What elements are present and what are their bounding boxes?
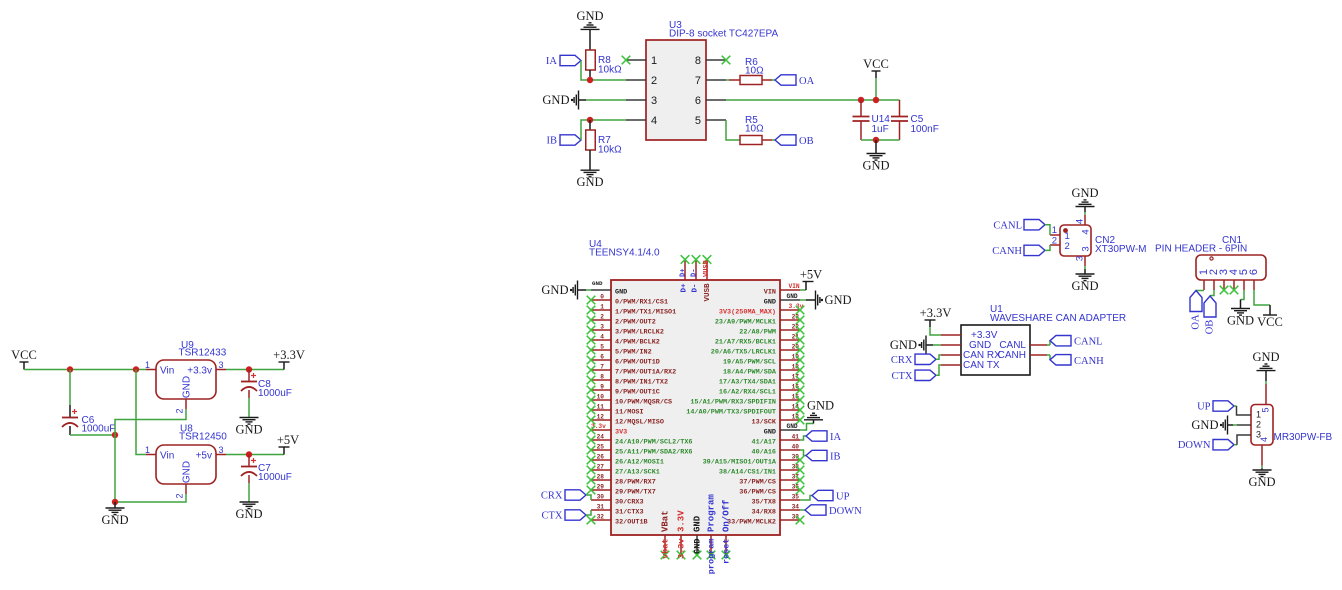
- svg-text:vbat: vbat: [661, 539, 671, 559]
- U4 right pin 3V3(250MA_MAX) row 310: [719, 303, 804, 316]
- junction C6 bottom: [112, 432, 118, 438]
- U4 right pin 23/A9/PWM/MCLK1 row 320: [715, 314, 804, 327]
- svg-text:6: 6: [600, 354, 604, 361]
- svg-text:3: 3: [1075, 256, 1086, 261]
- U9 pin 3: [216, 360, 226, 370]
- U1 pin CANL: [1030, 344, 1047, 346]
- svg-text:CTX: CTX: [542, 511, 563, 522]
- svg-text:0: 0: [600, 294, 604, 301]
- U8 pin 1: [145, 445, 156, 455]
- svg-text:11: 11: [597, 404, 605, 411]
- svg-text:5: 5: [600, 344, 604, 351]
- svg-text:4: 4: [1259, 437, 1269, 442]
- svg-text:18: 18: [792, 364, 800, 371]
- junction U8 feed: [133, 366, 139, 372]
- svg-text:CANH: CANH: [992, 246, 1022, 257]
- resistor R6: [726, 57, 775, 85]
- svg-text:36: 36: [792, 484, 800, 491]
- ground GND (above R8): [576, 9, 603, 30]
- svg-text:12: 12: [597, 414, 605, 421]
- svg-text:DOWN: DOWN: [1178, 440, 1211, 451]
- svg-text:1: 1: [600, 304, 604, 311]
- svg-text:10Ω: 10Ω: [745, 124, 764, 135]
- svg-text:31/CTX3: 31/CTX3: [615, 508, 644, 516]
- U4 right pin 18/A4/PWM/SDA row 370: [723, 364, 804, 377]
- CN1 pin 5: [1238, 269, 1250, 290]
- MR30 pin 3 wire: [1234, 435, 1251, 445]
- svg-text:28/PWM/RX7: 28/PWM/RX7: [615, 478, 656, 486]
- svg-text:3: 3: [218, 445, 223, 455]
- svg-text:23: 23: [792, 314, 800, 321]
- label CRX: [541, 490, 586, 502]
- svg-text:19: 19: [792, 354, 800, 361]
- svg-text:8/PWM/IN1/TX2: 8/PWM/IN1/TX2: [615, 378, 668, 386]
- svg-text:On/Off: On/Off: [722, 500, 732, 532]
- U4 right pin 21/A7/RX5/BCLK1 row 340: [715, 334, 804, 347]
- U4 right pin GND row 430: [764, 428, 800, 436]
- junction ground rail: [112, 499, 118, 505]
- svg-text:15/A1/PWM/RX3/SPDIFIN: 15/A1/PWM/RX3/SPDIFIN: [690, 398, 776, 406]
- wire U9 pin2 to ground rail: [115, 409, 186, 502]
- U4 left pin 24/A10/PWM/SCL2/TX6: [587, 434, 693, 447]
- svg-text:25: 25: [597, 444, 605, 451]
- svg-text:10kΩ: 10kΩ: [598, 65, 622, 76]
- CN1 pin 3: [1218, 269, 1230, 290]
- svg-text:3.3v: 3.3v: [677, 539, 687, 559]
- svg-text:MR30PW-FB: MR30PW-FB: [1274, 432, 1333, 443]
- ground GND (left of pin 3): [542, 91, 578, 110]
- svg-text:31: 31: [597, 504, 605, 511]
- svg-text:2: 2: [175, 408, 185, 413]
- svg-text:VBat: VBat: [661, 510, 671, 532]
- wire GND to pin 3: [579, 99, 627, 101]
- svg-text:2: 2: [1052, 236, 1057, 247]
- wire CRX to pin 30: [586, 495, 591, 500]
- svg-text:10Ω: 10Ω: [745, 66, 764, 77]
- svg-text:CAN TX: CAN TX: [963, 360, 1000, 371]
- ground GND (U4 right, VIN side): [787, 291, 852, 310]
- wire C6 bottom: [70, 434, 115, 436]
- svg-text:16/A2/RX4/SCL1: 16/A2/RX4/SCL1: [719, 388, 776, 396]
- svg-text:41: 41: [792, 434, 800, 441]
- U4 left pin 3/PWM/LRCLK2: [587, 324, 664, 337]
- svg-text:GND: GND: [576, 9, 603, 23]
- svg-text:37: 37: [792, 474, 800, 481]
- svg-text:CANL: CANL: [993, 221, 1022, 232]
- svg-text:DOWN: DOWN: [829, 506, 862, 517]
- svg-text:3/PWM/LRCLK2: 3/PWM/LRCLK2: [615, 328, 664, 336]
- microcontroller U4 TEENSY4.1/4.0: [589, 239, 780, 535]
- svg-text:1000uF: 1000uF: [82, 424, 116, 435]
- svg-text:19/A5/PWM/SCL: 19/A5/PWM/SCL: [723, 358, 776, 366]
- connector CN2 XT30PW-M: [1060, 225, 1147, 256]
- svg-text:GND: GND: [787, 293, 798, 300]
- label IA: [546, 55, 581, 67]
- svg-text:1: 1: [145, 360, 150, 370]
- svg-text:VIN: VIN: [789, 283, 800, 290]
- svg-text:GND: GND: [764, 428, 776, 436]
- pin 8: [695, 55, 730, 67]
- svg-text:WAVESHARE CAN ADAPTER: WAVESHARE CAN ADAPTER: [990, 313, 1126, 324]
- svg-text:0/PWM/RX1/CS1: 0/PWM/RX1/CS1: [615, 298, 668, 306]
- svg-text:13: 13: [792, 414, 800, 421]
- pin 1: [622, 55, 657, 67]
- svg-text:1/PWM/TX1/MISO1: 1/PWM/TX1/MISO1: [615, 308, 676, 316]
- svg-text:VCC: VCC: [863, 57, 889, 71]
- junction C6 top: [67, 366, 73, 372]
- resistor R7: [586, 120, 622, 156]
- U4 left pin 4/PWM/BCLK2: [587, 334, 660, 347]
- label OA (CN1): [1190, 291, 1204, 330]
- capacitor C5 100nF: [891, 100, 939, 140]
- label DOWN (MR30): [1178, 440, 1234, 452]
- svg-text:24: 24: [597, 434, 605, 441]
- svg-text:1: 1: [145, 445, 150, 455]
- U4 right pin 14/A0/PWM/TX3/SPDIFOUT row 410: [686, 404, 804, 417]
- wire R8 top to GND: [589, 29, 591, 50]
- svg-text:VCC: VCC: [1257, 315, 1283, 329]
- svg-text:VCC: VCC: [11, 348, 37, 362]
- U4 right pin 16/A2/RX4/SCL1 row 390: [719, 384, 804, 397]
- CN1 pin 1: [1198, 269, 1210, 290]
- svg-text:GND: GND: [576, 175, 603, 189]
- U4 right pin 38/A14/CS1/IN1 row 470: [719, 464, 804, 477]
- U4 bottom pin On/Off: [722, 500, 732, 564]
- U4 left pin 30/CRX3: [591, 494, 644, 507]
- MR30 pin 5 (top): [1265, 384, 1267, 405]
- U1 pin CAN RX: [941, 354, 961, 356]
- U4 left pin 9/PWM/OUT1C: [587, 384, 660, 397]
- svg-text:TSR12433: TSR12433: [179, 348, 227, 359]
- pin 3: [626, 95, 657, 107]
- label OB (CN1): [1204, 290, 1216, 334]
- svg-text:10/PWM/MQSR/CS: 10/PWM/MQSR/CS: [615, 398, 672, 406]
- svg-text:OB: OB: [1205, 320, 1216, 335]
- svg-text:UP: UP: [836, 492, 850, 503]
- svg-text:17/A3/TX4/SDA1: 17/A3/TX4/SDA1: [719, 378, 776, 386]
- svg-text:37/PWM/CS: 37/PWM/CS: [739, 478, 776, 486]
- power VCC (CN1): [1254, 290, 1283, 329]
- capacitor C7 1000uF: [241, 455, 292, 503]
- svg-text:22: 22: [792, 324, 800, 331]
- U4 right pin 41/A17 row 440: [752, 434, 800, 447]
- svg-text:8: 8: [600, 374, 604, 381]
- svg-text:GND: GND: [235, 423, 262, 437]
- svg-text:33: 33: [792, 514, 800, 521]
- op-amp U3 DIP-8 socket TC427EPA: [646, 20, 778, 140]
- svg-text:Program: Program: [707, 494, 717, 532]
- svg-text:Vin: Vin: [160, 366, 174, 377]
- svg-text:1: 1: [651, 55, 657, 67]
- svg-text:IB: IB: [547, 136, 558, 147]
- svg-text:GND: GND: [182, 376, 193, 398]
- pin 7: [695, 75, 726, 87]
- wire CRX to CAN RX: [936, 355, 941, 359]
- svg-text:GND: GND: [787, 423, 798, 430]
- ground GND (U4 right, row 430): [787, 399, 835, 431]
- svg-text:GND: GND: [1071, 279, 1098, 293]
- wire U9 out: [226, 369, 284, 371]
- junction caps bottom: [873, 137, 879, 143]
- svg-text:33/PWM/MCLK2: 33/PWM/MCLK2: [727, 518, 776, 526]
- ground GND (MR30 pin 2): [1191, 416, 1251, 435]
- svg-text:16: 16: [792, 384, 800, 391]
- svg-text:8: 8: [695, 55, 701, 67]
- svg-text:PIN HEADER - 6PIN: PIN HEADER - 6PIN: [1155, 244, 1247, 255]
- svg-text:3: 3: [218, 360, 223, 370]
- label DOWN (U4): [800, 505, 862, 517]
- svg-text:6: 6: [695, 95, 701, 107]
- svg-text:+3.3v: +3.3v: [187, 366, 212, 377]
- svg-text:4/PWM/BCLK2: 4/PWM/BCLK2: [615, 338, 660, 346]
- svg-text:GND: GND: [1191, 418, 1218, 432]
- svg-text:GND: GND: [764, 298, 776, 306]
- label CTX: [542, 510, 587, 522]
- ground GND (below R7): [576, 150, 603, 189]
- ground GND (below C8): [235, 418, 262, 437]
- node VIN / power +5V: [789, 267, 823, 290]
- svg-text:2: 2: [1065, 241, 1070, 252]
- U4 right pin 33/PWM/MCLK2 row 520: [727, 514, 804, 527]
- ground GND (below C7): [235, 502, 262, 521]
- U4 top pin D-: [691, 255, 701, 292]
- U4 right pin 20/A6/TX5/LRCLK1 row 350: [711, 344, 805, 357]
- svg-text:26: 26: [597, 454, 605, 461]
- capacitor U14 1uF: [853, 100, 891, 140]
- label CANH (U1): [1047, 355, 1104, 367]
- svg-text:4: 4: [651, 115, 657, 127]
- svg-text:30: 30: [597, 494, 605, 501]
- U4 left pin 11/MOSI: [587, 404, 644, 417]
- svg-text:29: 29: [597, 484, 605, 491]
- U4 right pin 19/A5/PWM/SCL row 360: [723, 354, 804, 367]
- U4 left pin 7/PWM/OUT1A/RX2: [587, 364, 676, 377]
- svg-text:GND: GND: [615, 288, 627, 296]
- svg-text:GND: GND: [1071, 186, 1098, 200]
- svg-text:5: 5: [695, 115, 701, 127]
- wire R8 bottom: [589, 70, 591, 80]
- U4 left pin 1/PWM/TX1/MISO1: [587, 304, 676, 317]
- svg-text:18/A4/PWM/SDA: 18/A4/PWM/SDA: [723, 368, 777, 376]
- resistor R8: [586, 50, 622, 76]
- U4 left pin 6/PWM/OUT1D: [587, 354, 660, 367]
- svg-text:4: 4: [1075, 219, 1086, 224]
- svg-text:1000uF: 1000uF: [258, 472, 292, 483]
- wire CTX to pin 31: [586, 510, 591, 515]
- svg-text:GND: GND: [541, 283, 568, 297]
- wire VCC to U8 Vin: [136, 370, 146, 455]
- svg-text:17: 17: [792, 374, 800, 381]
- connector MR30PW-FB: [1251, 405, 1333, 446]
- CN2 pin 2: [1050, 236, 1070, 253]
- U4 right pin 39/A15/MISO1/OUT1A row 460: [703, 454, 805, 467]
- svg-text:GND: GND: [1227, 314, 1254, 328]
- svg-text:12/MQSL/MISO: 12/MQSL/MISO: [615, 418, 664, 426]
- svg-text:28: 28: [597, 474, 605, 481]
- CN2 pin 4 (top): [1075, 215, 1092, 235]
- svg-text:3.3V: 3.3V: [677, 510, 687, 532]
- junction C8 top: [246, 366, 252, 372]
- svg-text:CANH: CANH: [1074, 356, 1104, 367]
- U4 right pin 34/RX8 row 510: [752, 504, 800, 517]
- ground GND (U1): [890, 336, 941, 355]
- svg-text:34/RX8: 34/RX8: [752, 508, 776, 516]
- U1 pin CAN TX: [941, 364, 961, 366]
- svg-text:40: 40: [792, 444, 800, 451]
- U4 left pin 5/PWM/IN2: [587, 344, 652, 357]
- svg-text:34: 34: [792, 504, 800, 511]
- svg-text:39: 39: [792, 454, 800, 461]
- U4 left pin 25/A11/PWM/SDA2/RX6: [587, 444, 693, 457]
- U4 right pin 17/A3/TX4/SDA1 row 380: [719, 374, 804, 387]
- U4 left pin 12/MQSL/MISO: [587, 414, 664, 427]
- svg-text:GND: GND: [807, 399, 834, 413]
- svg-text:32: 32: [597, 514, 605, 521]
- svg-text:4: 4: [600, 334, 604, 341]
- U4 right pin 40/A16 row 450: [752, 444, 800, 457]
- svg-text:VUSB: VUSB: [703, 259, 711, 277]
- svg-text:3: 3: [600, 324, 604, 331]
- U4 right pin 35/TX8 row 500: [752, 494, 800, 507]
- svg-text:38: 38: [792, 464, 800, 471]
- svg-text:XT30PW-M: XT30PW-M: [1095, 244, 1147, 255]
- wire IA to node: [581, 61, 626, 81]
- svg-text:program: program: [707, 539, 717, 575]
- U1 pin CANH: [1030, 354, 1047, 356]
- label UP (MR30): [1197, 401, 1234, 413]
- U4 right pin 36/PWM/CS row 490: [739, 484, 804, 497]
- svg-text:Vin: Vin: [160, 451, 174, 462]
- svg-text:26/A12/MOSI1: 26/A12/MOSI1: [615, 458, 664, 466]
- label OB: [775, 135, 814, 147]
- wire pin5 to R5: [726, 120, 740, 140]
- pin 4: [626, 115, 657, 127]
- U4 right pin 15/A1/PWM/RX3/SPDIFIN row 400: [690, 394, 804, 407]
- svg-text:GND: GND: [101, 513, 128, 527]
- svg-text:IA: IA: [546, 56, 557, 67]
- svg-text:27: 27: [597, 464, 605, 471]
- svg-text:24/A10/PWM/SCL2/TX6: 24/A10/PWM/SCL2/TX6: [615, 438, 693, 446]
- svg-text:20/A6/TX5/LRCLK1: 20/A6/TX5/LRCLK1: [711, 348, 776, 356]
- regulator U9 TSR12433: [156, 340, 227, 399]
- U4 bottom pin VBat: [661, 510, 671, 559]
- svg-text:1000uF: 1000uF: [258, 388, 292, 399]
- label OA: [775, 75, 815, 87]
- label CANL (U1): [1047, 336, 1103, 348]
- svg-text:2: 2: [175, 493, 185, 498]
- U4 left pin 32/OUT1B: [587, 514, 648, 527]
- svg-text:21/A7/RX5/BCLK1: 21/A7/RX5/BCLK1: [715, 338, 776, 346]
- svg-text:39/A15/MISO1/OUT1A: 39/A15/MISO1/OUT1A: [703, 458, 777, 466]
- svg-text:35/TX8: 35/TX8: [752, 498, 776, 506]
- svg-text:GND: GND: [542, 93, 569, 107]
- svg-text:OA: OA: [799, 76, 815, 87]
- svg-text:GND: GND: [862, 159, 889, 173]
- svg-text:6/PWM/OUT1D: 6/PWM/OUT1D: [615, 358, 660, 366]
- svg-text:14/A0/PWM/TX3/SPDIFOUT: 14/A0/PWM/TX3/SPDIFOUT: [686, 408, 776, 416]
- wire CANH to CN2 pin2: [1045, 245, 1050, 250]
- svg-text:GND: GND: [825, 293, 852, 307]
- U8 pin 2: [175, 484, 187, 499]
- U4 right pin 13/SCK row 420: [752, 414, 805, 427]
- svg-text:VIN: VIN: [764, 288, 776, 296]
- svg-text:CANL: CANL: [1074, 337, 1103, 348]
- svg-text:+5V: +5V: [800, 267, 822, 281]
- U4 bottom pin Program: [707, 494, 717, 575]
- module U1 WAVESHARE CAN ADAPTER: [961, 304, 1126, 375]
- label IB (U4): [800, 450, 841, 463]
- ground GND (CN1): [1227, 290, 1254, 328]
- svg-text:D-: D-: [692, 284, 700, 293]
- wire caps bottom: [861, 139, 900, 141]
- svg-text:2/PWM/OUT2: 2/PWM/OUT2: [615, 318, 656, 326]
- svg-text:D+: D+: [681, 283, 689, 293]
- svg-text:GND: GND: [1252, 350, 1279, 364]
- U4 left pin 26/A12/MOSI1: [587, 454, 664, 467]
- U4 top pin D+: [680, 255, 690, 292]
- capacitor C6 1000uF: [62, 370, 115, 436]
- svg-text:9/PWM/OUT1C: 9/PWM/OUT1C: [615, 388, 660, 396]
- U4 top pin VUSB: [703, 255, 712, 301]
- pin 2: [626, 75, 657, 87]
- svg-text:UP: UP: [1197, 402, 1211, 413]
- pin 5: [695, 115, 726, 127]
- svg-text:IB: IB: [830, 452, 841, 463]
- regulator U8 TSR12450: [156, 424, 227, 485]
- svg-text:7: 7: [600, 364, 604, 371]
- U4 left pin 8/PWM/IN1/TX2: [587, 374, 668, 387]
- U4 left pin 0/PWM/RX1/CS1: [587, 294, 668, 307]
- svg-text:3V3(250MA_MAX): 3V3(250MA_MAX): [719, 308, 776, 316]
- U8 pin 3: [216, 445, 226, 455]
- svg-text:+3.3V: +3.3V: [920, 306, 952, 320]
- label IA (U4): [800, 431, 841, 443]
- ground GND (below caps): [862, 140, 889, 173]
- wire U8 out: [226, 454, 284, 456]
- label UP (U4): [800, 490, 850, 502]
- svg-text:10: 10: [597, 394, 605, 401]
- svg-text:GND: GND: [693, 539, 703, 554]
- label CANL (CN2): [993, 220, 1045, 232]
- no-connect CN1 pin 3: [1220, 286, 1229, 295]
- svg-text:OB: OB: [799, 136, 814, 147]
- ground GND (below CN2): [1071, 266, 1098, 293]
- svg-text:7: 7: [695, 75, 701, 87]
- svg-text:1uF: 1uF: [872, 124, 889, 135]
- svg-text:3V3: 3V3: [615, 428, 627, 436]
- resistor R5: [740, 115, 775, 145]
- svg-text:GND: GND: [890, 338, 917, 352]
- svg-text:2: 2: [651, 75, 657, 87]
- ground GND (U4 left): [541, 280, 603, 300]
- svg-text:CRX: CRX: [541, 491, 563, 502]
- svg-text:7/PWM/OUT1A/RX2: 7/PWM/OUT1A/RX2: [615, 368, 676, 376]
- svg-text:100nF: 100nF: [911, 124, 939, 135]
- pin 6: [695, 95, 726, 107]
- U4 left pin 28/PWM/RX7: [587, 474, 656, 487]
- CN1 pin 6: [1248, 269, 1260, 290]
- svg-text:36/PWM/CS: 36/PWM/CS: [739, 488, 776, 496]
- wire pin6 to decoupling caps: [726, 99, 900, 101]
- svg-text:25/A11/PWM/SDA2/RX6: 25/A11/PWM/SDA2/RX6: [615, 448, 693, 456]
- svg-text:+5v: +5v: [196, 451, 212, 462]
- wire CTX to CAN TX: [936, 365, 941, 375]
- svg-text:GND: GND: [235, 507, 262, 521]
- U1 pin +3.3V: [941, 334, 961, 336]
- svg-text:22/A8/PWM: 22/A8/PWM: [739, 328, 776, 336]
- U4 right pin GND row 300: [764, 298, 800, 306]
- svg-text:29/PWM/TX7: 29/PWM/TX7: [615, 488, 656, 496]
